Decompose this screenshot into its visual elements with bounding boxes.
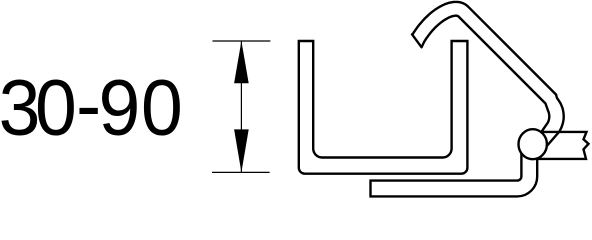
U-channel profile: [299, 41, 468, 174]
bottom rod (lower wire), outline via double stroke: [369, 144, 529, 189]
dimension arrowhead down: [234, 129, 249, 172]
extension line bottom: [212, 171, 270, 173]
extension line top: [213, 40, 271, 42]
dimension arrowhead up: [234, 41, 249, 83]
hook rod (bent wire) outline: [412, 2, 564, 145]
support bar with break symbol: [537, 132, 589, 159]
svg-text:30-90: 30-90: [0, 61, 183, 152]
dimension line: [240, 41, 242, 172]
pivot circle: [519, 129, 547, 159]
